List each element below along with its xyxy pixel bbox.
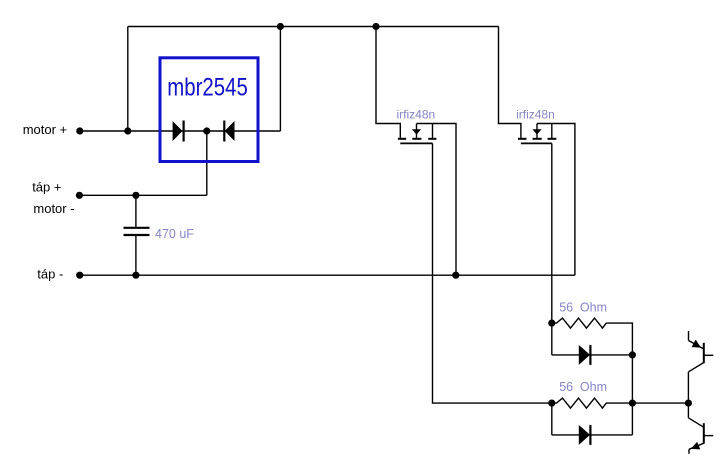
mosfet Q1 irfiz48n: [398, 124, 437, 144]
node top rail / diode out: [277, 23, 284, 30]
svg-text:táp +: táp +: [32, 180, 61, 195]
wire R1 left vertical to D3: [551, 323, 553, 355]
wire base feed to transistors: [632, 402, 688, 404]
transistor Q3 (top, PNP): [689, 331, 714, 372]
node tap+ / capacitor: [132, 192, 139, 199]
capacitor C1 470uF plates: [124, 228, 150, 235]
wire D3 cathode line: [552, 354, 633, 356]
svg-text:56: 56: [559, 300, 573, 314]
wire Q2 gate run to R1: [551, 143, 553, 323]
diode D2 (right in mbr2545): [224, 121, 234, 142]
node tap- / capacitor: [132, 272, 139, 279]
svg-text:irfiz48n: irfiz48n: [516, 108, 555, 122]
node R1 left: [548, 320, 555, 327]
wire drop from top rail to diode output: [279, 27, 281, 132]
node tap- terminal: [76, 272, 83, 279]
node top rail / Q1 drain: [372, 23, 379, 30]
node tap+ terminal: [76, 192, 83, 199]
wire Q1 source drop to tap- rail: [417, 124, 457, 276]
svg-text:Ohm: Ohm: [580, 300, 607, 314]
component box U1 mbr2545: [160, 58, 258, 162]
wire tap- rail: [80, 274, 575, 276]
svg-text:motor -: motor -: [33, 201, 74, 216]
wire drop from top rail to Q1 drain: [376, 27, 400, 138]
diode D4: [579, 425, 591, 445]
svg-text:mbr2545: mbr2545: [167, 74, 248, 102]
wire R2 left vertical to D4: [551, 403, 553, 435]
wire D4 line: [552, 434, 633, 436]
svg-text:Ohm: Ohm: [580, 380, 607, 394]
wire D4 cathode up to R2 right node: [631, 403, 633, 435]
resistor R1 56 Ohm: [552, 318, 607, 328]
wire transistor shared vertical: [687, 372, 689, 418]
diode D3: [579, 345, 591, 365]
node tap- / Q1 source: [452, 272, 459, 279]
wire capacitor bottom lead: [135, 236, 137, 276]
svg-text:56: 56: [559, 380, 573, 394]
wire Q1 gate run to R2: [433, 143, 552, 403]
diode D1 (left in mbr2545): [173, 121, 184, 142]
node R2 right: [629, 400, 636, 407]
wire tap+ line: [79, 194, 206, 196]
node diode center tap: [203, 127, 210, 134]
resistor R2 56 Ohm: [552, 398, 633, 408]
label 56 Ohm (R1): [559, 300, 607, 314]
wire drop from top rail to Q2 drain: [499, 27, 521, 138]
node transistor bases feed: [685, 400, 692, 407]
svg-text:470 uF: 470 uF: [155, 227, 194, 241]
svg-text:irfiz48n: irfiz48n: [397, 108, 436, 122]
svg-text:táp -: táp -: [37, 266, 63, 281]
wire R1 right vertical to R2 right: [606, 323, 632, 403]
wire Q2 source drop to tap- rail: [537, 124, 575, 276]
wire left drop from top rail to motor+ line: [127, 27, 129, 132]
wire motor+ line: [80, 130, 281, 132]
label 56 Ohm (R2): [559, 380, 607, 394]
wire capacitor top lead: [135, 195, 137, 227]
wire diode center tap down: [206, 131, 208, 195]
node R2 left: [548, 400, 555, 407]
wire top rail: [128, 26, 499, 28]
node motor+ terminal: [76, 127, 83, 134]
mosfet Q2 irfiz48n: [518, 124, 556, 144]
node D3 cathode: [629, 351, 636, 358]
transistor Q4 (bottom, NPN): [688, 418, 713, 454]
node motor+ / top rail: [124, 127, 131, 134]
svg-text:motor +: motor +: [23, 122, 67, 137]
